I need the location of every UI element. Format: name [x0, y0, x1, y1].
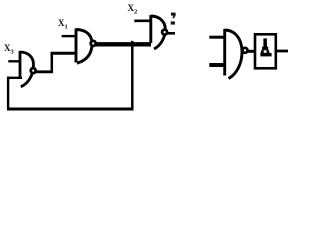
wire U4 input B — [209, 63, 224, 67]
wire U1 lower input (bottom edge) — [7, 77, 22, 79]
wire jog horizontal to U2 lower input — [51, 52, 77, 55]
NAND gate U4 body — [225, 29, 242, 79]
node feedback junction — [131, 41, 134, 44]
wire input X2 stub — [134, 19, 151, 22]
wire input X1 stub — [62, 35, 77, 37]
wire feedback bottom — [7, 108, 134, 111]
indicator box — [255, 34, 276, 68]
indicator lamp symbol — [263, 38, 267, 47]
NAND gate U3 bubble — [162, 30, 167, 35]
wire U4 input A — [209, 36, 224, 39]
wire U1 output — [36, 70, 53, 73]
NAND gate U2 body — [76, 29, 92, 64]
wire U4 output — [248, 50, 256, 53]
wire input X3 stub — [8, 60, 20, 62]
NAND gate U1 bubble — [31, 68, 36, 73]
wire U3 output — [167, 32, 175, 35]
NAND gate U1 body — [20, 51, 34, 87]
wire feedback vertical left — [7, 77, 9, 110]
wire jog vertical — [51, 52, 54, 73]
NAND gate U2 bubble — [91, 41, 96, 46]
NAND gate U3 body — [151, 15, 166, 49]
wire box output — [277, 50, 288, 53]
wire U2 output thick net — [95, 42, 151, 46]
NAND gate U4 bubble — [243, 48, 248, 53]
wire feedback vertical right — [131, 43, 134, 109]
output label ? — [171, 13, 176, 19]
